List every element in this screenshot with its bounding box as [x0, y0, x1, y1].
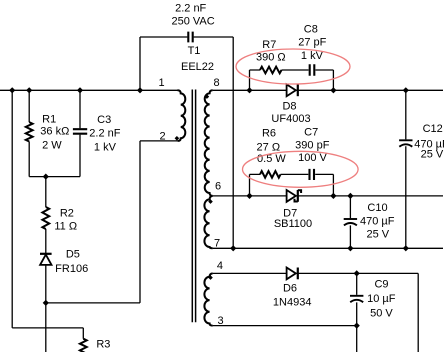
wire Y-cap left vertical: [140, 37, 187, 90]
svg-text:T1: T1: [188, 45, 201, 57]
wire snubber 1 frame: [250, 70, 334, 90]
wire C10 branch: [349, 196, 351, 248]
svg-text:0.5 W: 0.5 W: [257, 153, 286, 165]
diode D8 UF4003: [287, 84, 298, 96]
svg-text:390 Ω: 390 Ω: [256, 52, 286, 64]
svg-text:1 kV: 1 kV: [94, 142, 117, 154]
node junction drain node: [43, 300, 49, 306]
svg-text:R2: R2: [60, 207, 74, 219]
node junction bus / R1 branch: [26, 87, 32, 93]
svg-text:C7: C7: [304, 126, 318, 138]
svg-text:D5: D5: [66, 249, 80, 261]
svg-text:100 V: 100 V: [298, 152, 327, 164]
svg-text:2 W: 2 W: [42, 140, 62, 152]
node junction bus / left branch: [9, 87, 15, 93]
wire R1 branch: [28, 90, 30, 176]
wire clamp vertical to R2: [45, 177, 47, 207]
wire pin 6 output rail: [213, 195, 443, 197]
diode D6 1N4934: [287, 268, 298, 280]
wire C12 branch: [405, 90, 407, 248]
capacitor C8 27 pF 1 kV: [310, 64, 315, 75]
svg-text:390 pF: 390 pF: [295, 139, 330, 151]
svg-text:11 Ω: 11 Ω: [54, 221, 77, 233]
node junction rail8 / snubber left: [246, 87, 252, 93]
resistor R2 11 Ohm: [42, 207, 49, 229]
svg-text:250 VAC: 250 VAC: [171, 16, 214, 28]
capacitor C12 470 uF 25 V: [399, 140, 412, 146]
svg-text:27 pF: 27 pF: [298, 37, 326, 49]
wire snubber 2 frame: [250, 174, 334, 196]
node junction rail8 / snubber right: [330, 87, 336, 93]
svg-text:D6: D6: [283, 282, 297, 294]
svg-text:1: 1: [158, 77, 164, 89]
svg-text:R1: R1: [42, 114, 56, 126]
transformer T1 core: [192, 90, 195, 323]
node junction rail7 / C10: [347, 245, 353, 251]
svg-text:2.2 nF: 2.2 nF: [175, 3, 206, 15]
wire pin 7 return rail: [213, 247, 443, 249]
capacitor C9 10 uF 50 V: [350, 296, 363, 302]
svg-text:C12: C12: [423, 123, 443, 135]
wire D5 to drain node: [45, 265, 47, 352]
svg-text:36 kΩ: 36 kΩ: [40, 126, 69, 138]
svg-text:FR106: FR106: [55, 263, 88, 275]
wire C9 branch: [356, 273, 358, 352]
svg-text:10 µF: 10 µF: [367, 293, 396, 305]
transformer T1 primary winding (pins 1-2): [178, 90, 186, 141]
svg-text:6: 6: [215, 180, 221, 192]
wire top rail primary side (DC bus to pin 1): [0, 89, 178, 91]
svg-text:R6: R6: [262, 127, 276, 139]
wire pin 4 rail: [213, 273, 419, 352]
wire C3 branch: [79, 90, 81, 176]
svg-text:D8: D8: [282, 101, 296, 113]
transformer phase dot pin 8: [205, 94, 210, 99]
svg-text:R3: R3: [96, 339, 110, 351]
svg-text:7: 7: [214, 237, 220, 249]
svg-text:2.2 nF: 2.2 nF: [89, 127, 120, 139]
capacitor C10 470 uF 25 V: [344, 219, 357, 225]
annotation ellipse around R7/C8 snubber: [236, 49, 350, 84]
wire R1/C3 bottom horizontal: [29, 176, 80, 178]
annotation ellipse around R6/C7 snubber: [242, 151, 358, 187]
node junction rail8 / C12 branch: [403, 87, 409, 93]
svg-text:C10: C10: [367, 202, 387, 214]
capacitor 2.2 nF 250 VAC Y-cap: [188, 32, 192, 43]
transformer T1 secondary winding (pins 6-7): [204, 196, 212, 248]
svg-text:470 µF: 470 µF: [360, 216, 395, 228]
wire Y-cap right to secondary return: [194, 37, 234, 248]
node junction rail7 / C12: [403, 245, 409, 251]
diode D5 FR106: [40, 254, 52, 265]
svg-text:1N4934: 1N4934: [273, 296, 312, 308]
node junction rail7 / Y-cap: [230, 245, 236, 251]
node junction rail6 / C10 branch: [347, 193, 353, 199]
svg-text:C8: C8: [304, 23, 318, 35]
capacitor C7 390 pF 100 V: [310, 169, 315, 180]
transformer T1 auxiliary winding (pins 4-3): [204, 273, 212, 325]
transformer T1 secondary winding (pins 8-6): [205, 90, 213, 196]
transformer phase dot pin 6: [208, 199, 213, 204]
svg-text:C9: C9: [374, 278, 388, 290]
svg-text:SB1100: SB1100: [274, 218, 312, 230]
svg-text:27 Ω: 27 Ω: [257, 141, 281, 153]
capacitor C3 2.2 nF 1 kV: [73, 129, 87, 134]
resistor R1 36 kOhm 2 W: [26, 122, 33, 141]
svg-text:UF4003: UF4003: [271, 113, 310, 125]
node junction bus / Y-cap branch: [137, 87, 143, 93]
resistor R3: [80, 339, 87, 352]
resistor R7 390 Ohm: [260, 67, 282, 74]
wire left vertical branch: [11, 90, 13, 328]
wire drain node to pin 2: [46, 141, 178, 303]
svg-text:1 kV: 1 kV: [301, 50, 324, 62]
svg-text:50 V: 50 V: [370, 307, 393, 319]
node junction rail4 / C9: [354, 270, 360, 276]
transformer phase dot pin 2: [175, 136, 180, 141]
svg-text:2: 2: [159, 130, 165, 142]
svg-text:4: 4: [217, 260, 223, 272]
node junction rail3 / C9 bottom: [354, 323, 360, 329]
svg-text:3: 3: [218, 315, 224, 327]
node junction bus / C3 branch: [77, 87, 83, 93]
svg-text:25 V: 25 V: [421, 149, 444, 161]
svg-text:25 V: 25 V: [366, 229, 389, 241]
svg-text:C3: C3: [97, 114, 111, 126]
wire pin 3 rail: [213, 325, 357, 327]
diode D7 SB1100: [287, 190, 301, 202]
node junction clamp node: [43, 174, 49, 180]
wire pin 8 output rail: [213, 89, 443, 91]
node junction rail6 / snubber left: [246, 193, 252, 199]
resistor R6 27 Ohm 0.5 W: [260, 171, 281, 178]
transformer phase dot pin 4: [208, 275, 213, 280]
wire bottom-left horizontal to R3: [12, 328, 83, 339]
svg-text:EEL22: EEL22: [181, 61, 214, 73]
svg-text:8: 8: [214, 77, 220, 89]
node junction rail6 / snubber right: [330, 193, 336, 199]
wire R2 to D5: [45, 229, 47, 253]
